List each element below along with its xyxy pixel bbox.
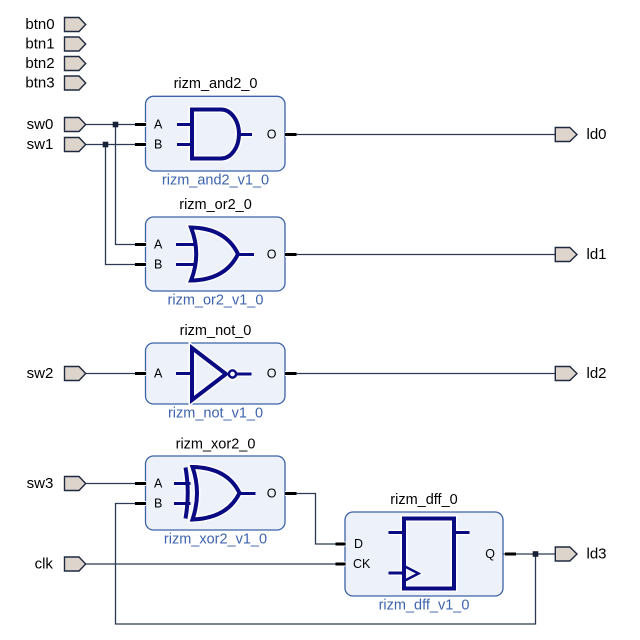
- not-gate U_NOT: [176, 348, 252, 400]
- junction sw1 branch: [103, 142, 109, 148]
- svg-text:A: A: [154, 238, 163, 252]
- svg-text:B: B: [154, 258, 162, 272]
- pin stub NOT A: [135, 371, 146, 376]
- wire sw0 to AND A: [86, 124, 146, 126]
- svg-text:O: O: [267, 367, 277, 381]
- svg-text:sw2: sw2: [27, 365, 54, 382]
- svg-text:clk: clk: [35, 556, 54, 573]
- wire sw2 to NOT A: [86, 373, 146, 375]
- pin stub NOT O: [285, 371, 297, 376]
- svg-text:rizm_and2_v1_0: rizm_and2_v1_0: [162, 173, 269, 189]
- input port btn0: [65, 18, 86, 32]
- svg-text:rizm_xor2_0: rizm_xor2_0: [176, 437, 256, 453]
- svg-text:rizm_not_v1_0: rizm_not_v1_0: [168, 406, 263, 422]
- svg-text:A: A: [154, 118, 163, 132]
- svg-text:rizm_and2_0: rizm_and2_0: [174, 76, 258, 92]
- pin stub XOR B: [135, 501, 146, 506]
- svg-text:D: D: [354, 537, 363, 551]
- pin stub OR A: [135, 242, 146, 247]
- pin stub DFF Q: [505, 552, 516, 557]
- svg-text:O: O: [267, 487, 277, 501]
- svg-text:O: O: [267, 248, 277, 262]
- wire sw0 branch to OR A: [116, 125, 147, 245]
- svg-text:B: B: [154, 138, 162, 152]
- or-gate U_OR: [176, 228, 254, 281]
- input port sw2: [65, 367, 86, 381]
- pin stub AND O: [285, 132, 297, 137]
- svg-text:ld3: ld3: [587, 546, 607, 563]
- svg-text:rizm_xor2_v1_0: rizm_xor2_v1_0: [164, 532, 267, 548]
- pin stub XOR O: [285, 491, 297, 496]
- output port ld1: [555, 248, 577, 262]
- input port btn3: [65, 76, 86, 90]
- block rizm_or2_0: [146, 217, 286, 291]
- svg-text:btn2: btn2: [25, 55, 54, 72]
- xor-gate U_XOR: [174, 467, 256, 520]
- wire DFF Q to ld3: [503, 553, 556, 555]
- block rizm_dff_0: [345, 512, 503, 596]
- pin stub XOR A: [135, 481, 146, 486]
- svg-text:sw0: sw0: [27, 116, 54, 133]
- wire OR O to ld1: [285, 254, 556, 256]
- wire sw3 to XOR A: [86, 483, 146, 485]
- svg-text:sw1: sw1: [27, 136, 54, 153]
- output port ld0: [555, 128, 577, 142]
- pin stub AND B: [135, 142, 146, 147]
- svg-text:btn3: btn3: [25, 75, 54, 92]
- svg-text:B: B: [154, 497, 162, 511]
- svg-text:rizm_not_0: rizm_not_0: [180, 323, 252, 339]
- pin stub OR B: [135, 262, 146, 267]
- output port ld2: [555, 367, 577, 381]
- svg-text:Q: Q: [485, 547, 495, 561]
- svg-text:CK: CK: [353, 557, 371, 571]
- junction sw0 branch: [113, 122, 119, 128]
- svg-text:ld0: ld0: [587, 126, 607, 143]
- wire sw1 to AND B: [86, 144, 146, 146]
- svg-text:rizm_dff_v1_0: rizm_dff_v1_0: [379, 598, 470, 614]
- svg-text:O: O: [267, 128, 277, 142]
- wire XOR O to DFF D: [285, 494, 345, 545]
- input port sw3: [65, 477, 86, 491]
- wire feedback Q to XOR B: [116, 504, 536, 625]
- wire AND O to ld0: [285, 134, 556, 136]
- input port clk: [65, 557, 86, 571]
- svg-text:rizm_or2_0: rizm_or2_0: [179, 197, 252, 213]
- wire clk to DFF CK: [86, 563, 345, 565]
- svg-text:ld2: ld2: [587, 365, 607, 382]
- svg-text:rizm_or2_v1_0: rizm_or2_v1_0: [168, 293, 264, 309]
- svg-text:rizm_dff_0: rizm_dff_0: [390, 492, 457, 508]
- and-gate U_AND: [177, 110, 252, 159]
- block rizm_xor2_0: [146, 456, 286, 530]
- input port btn1: [65, 37, 86, 51]
- block rizm_not_0: [146, 343, 286, 404]
- svg-text:A: A: [154, 477, 163, 491]
- svg-text:btn1: btn1: [25, 36, 54, 53]
- input port sw0: [65, 118, 86, 132]
- wire NOT O to ld2: [285, 373, 556, 375]
- dff symbol body: [389, 519, 470, 589]
- wire sw1 branch to OR B: [106, 145, 147, 265]
- pin stub AND A: [135, 122, 146, 127]
- svg-text:ld1: ld1: [587, 246, 607, 263]
- block rizm_and2_0: [146, 96, 286, 171]
- pin stub DFF CK: [336, 562, 346, 567]
- junction Q feedback: [533, 551, 539, 557]
- input port sw1: [65, 138, 86, 152]
- svg-text:sw3: sw3: [27, 475, 54, 492]
- pin stub DFF D: [336, 542, 346, 547]
- svg-text:A: A: [154, 367, 163, 381]
- output port ld3: [555, 547, 577, 561]
- input port btn2: [65, 57, 86, 71]
- svg-text:btn0: btn0: [25, 16, 54, 33]
- pin stub OR O: [285, 252, 297, 257]
